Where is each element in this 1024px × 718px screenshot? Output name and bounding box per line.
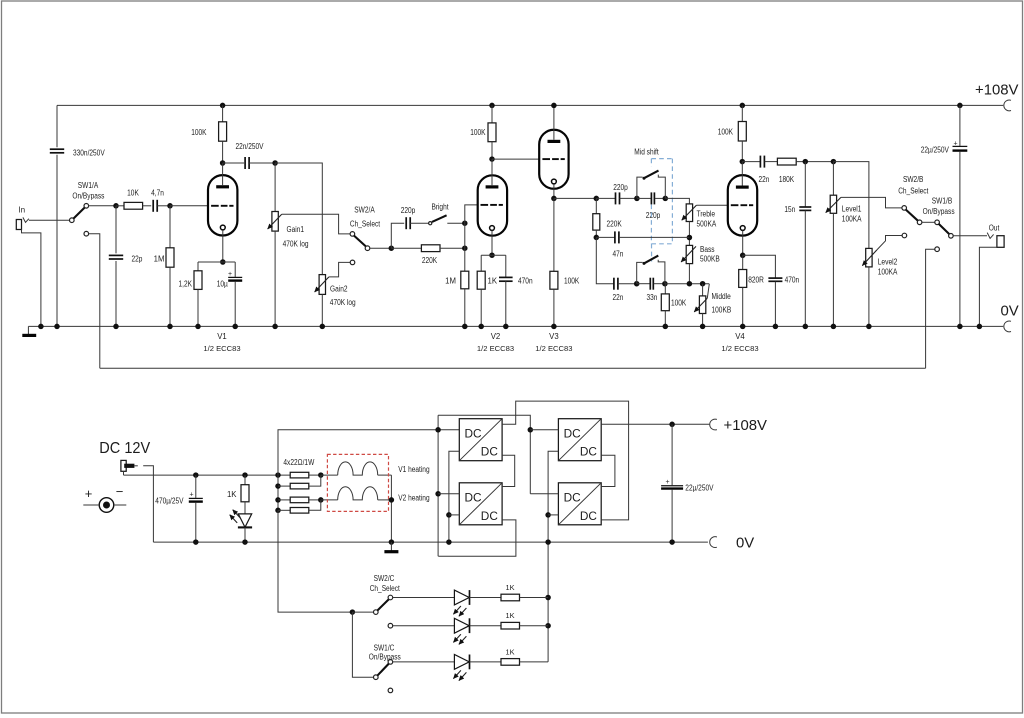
resistor 22ohm R3 — [278, 499, 290, 501]
tube V3 — [539, 130, 568, 189]
svg-text:DC: DC — [564, 427, 582, 441]
wire Gain2 wiper to SW2/A — [329, 262, 350, 277]
input jack J1 — [16, 220, 21, 230]
wire Bright to grid node — [447, 222, 465, 224]
wire bus2 to U3 — [530, 429, 558, 431]
svg-text:4x22Ω/1W: 4x22Ω/1W — [283, 458, 314, 467]
svg-text:1K: 1K — [505, 583, 514, 592]
resistor 100K (V3 cathode) — [553, 198, 555, 271]
switch SW1/B throw2 — [935, 247, 940, 252]
DC-DC converter U4 — [558, 483, 601, 525]
switch SW1/B lever — [939, 224, 950, 235]
potentiometer Middle — [702, 284, 704, 296]
svg-text:On/Bypass: On/Bypass — [72, 191, 104, 200]
wire bus to switches — [278, 510, 352, 612]
svg-text:+: + — [190, 491, 194, 498]
node V2 plate — [489, 156, 495, 162]
svg-text:+: + — [85, 486, 93, 501]
svg-text:1M: 1M — [445, 277, 456, 286]
resistor bus — [277, 475, 279, 510]
wire U1 out+ to L1 — [502, 401, 628, 520]
Level1 wiper — [826, 197, 841, 212]
switch SW2/B throw1 — [902, 206, 907, 211]
wire U2 out- return — [438, 520, 516, 556]
svg-text:1K: 1K — [505, 611, 514, 620]
svg-text:Out: Out — [989, 223, 1000, 232]
svg-text:500KB: 500KB — [700, 255, 720, 264]
wire node to V1 grid — [170, 205, 208, 207]
svg-text:Bass: Bass — [700, 245, 715, 254]
DC-DC converter U1 — [459, 419, 502, 461]
wire U2 in- stub — [449, 514, 459, 516]
V3 grid dash — [542, 158, 550, 160]
wire U1 out- to U2 out+ — [502, 455, 515, 486]
svg-text:100K: 100K — [718, 128, 734, 137]
resistor 22ohm R2 — [278, 485, 290, 487]
switch SW1/A throw1 — [84, 204, 89, 209]
V3 cathode — [552, 179, 557, 184]
wire tone B down — [596, 237, 614, 283]
resistor 22ohm R1 — [290, 472, 309, 478]
svg-text:1/2 ECC83: 1/2 ECC83 — [535, 344, 572, 353]
wire bus2 to U4 — [530, 493, 558, 495]
svg-text:1/2 ECC83: 1/2 ECC83 — [477, 344, 514, 353]
resistor 22ohm R4 — [278, 509, 290, 511]
switch SW2/C lever — [377, 599, 389, 610]
Bass wiper — [681, 246, 696, 262]
+12V rail — [124, 474, 291, 476]
svg-text:DC: DC — [465, 491, 483, 505]
wire SW2/C common stub — [352, 611, 373, 613]
svg-text:Gain2: Gain2 — [330, 285, 348, 294]
0V terminal arc — [1004, 321, 1011, 332]
wire to Treble — [665, 198, 689, 204]
svg-text:Ch_Select: Ch_Select — [898, 187, 929, 196]
svg-text:100KA: 100KA — [878, 268, 898, 277]
wire L2 bus link — [438, 415, 530, 494]
svg-text:4,7n: 4,7n — [151, 188, 164, 197]
LED row 2 — [393, 625, 455, 627]
+108V output wire — [601, 423, 709, 425]
svg-text:V3: V3 — [549, 332, 559, 341]
svg-text:10K: 10K — [127, 188, 139, 197]
DC-DC converter U2 — [459, 483, 502, 525]
Middle wiper — [707, 284, 709, 298]
svg-text:22p: 22p — [132, 255, 143, 264]
node V1 grid input — [113, 203, 119, 209]
Level2 wiper — [862, 250, 877, 266]
node grid V1 — [167, 203, 173, 209]
capacitor 22u/250V (psu) — [671, 424, 673, 485]
svg-text:SW2/C: SW2/C — [374, 574, 395, 583]
resistor 1.2K — [197, 262, 199, 271]
node tone A — [594, 196, 600, 202]
svg-text:22n: 22n — [759, 175, 770, 184]
node Treble/Bass — [687, 235, 693, 241]
switch SW2/A throw1 — [350, 232, 355, 237]
svg-text:Bright: Bright — [431, 203, 449, 212]
node 15n top — [803, 159, 809, 165]
svg-text:DC: DC — [564, 491, 582, 505]
svg-text:On/Bypass: On/Bypass — [369, 653, 401, 662]
svg-text:Gain1: Gain1 — [287, 225, 305, 234]
resistor 220K (tone) — [595, 198, 597, 213]
capacitor 470n (V2 cathode) — [505, 255, 507, 277]
svg-text:Middle: Middle — [712, 292, 731, 301]
junction 330n/0V — [54, 324, 60, 330]
resistor 1K (V2 cathode) — [480, 255, 482, 271]
mid shift switch upper — [637, 177, 643, 198]
wire U4 in- stub — [548, 514, 558, 516]
switch SW2/B throw2 — [902, 233, 907, 238]
capacitor 15n — [804, 162, 806, 207]
wire V3 cathode to tone stack — [554, 197, 596, 199]
bypass wire (bottom) — [100, 367, 926, 369]
switch SW2/C throw2 — [388, 623, 393, 628]
svg-text:33n: 33n — [647, 293, 658, 302]
svg-text:On/Bypass: On/Bypass — [923, 207, 955, 216]
potentiometer Level2 — [866, 248, 872, 267]
svg-text:22n: 22n — [613, 293, 624, 302]
wire to SW1/C — [352, 612, 373, 677]
resistor 100K (V4 plate) — [740, 103, 746, 109]
wire top to Gain2 — [275, 163, 322, 275]
capacitor 4.7n — [152, 200, 154, 212]
wire V2 plate to V3 grid — [492, 158, 540, 160]
node Middle top — [700, 281, 706, 287]
V1 cathode — [220, 225, 225, 230]
svg-text:100K: 100K — [470, 128, 486, 137]
V4 grid dash — [731, 204, 739, 206]
capacitor 33n — [637, 283, 650, 285]
wire lower tone — [665, 283, 709, 285]
wire Gain1 wiper to SW2/A — [282, 214, 350, 234]
svg-text:Mid shift: Mid shift — [634, 147, 659, 156]
svg-text:+108V: +108V — [975, 83, 1019, 99]
switch SW2/A throw2 — [350, 260, 355, 265]
capacitor 22n (tone) — [613, 278, 615, 290]
svg-text:0V: 0V — [736, 536, 754, 552]
svg-text:SW2/B: SW2/B — [903, 175, 923, 184]
wire riser to DC-DC — [278, 430, 459, 475]
svg-text:100KA: 100KA — [842, 215, 862, 224]
resistor 1M (V2 grid) — [461, 271, 469, 289]
+108V rail (top) — [57, 104, 1003, 106]
wire SW2/B to SW1/B — [922, 221, 935, 223]
svg-text:180K: 180K — [779, 175, 795, 184]
V4 cathode — [740, 226, 745, 231]
wire plug sleeve — [123, 471, 125, 475]
capacitor 22n (output) — [742, 161, 760, 163]
node V3 cathode — [551, 196, 557, 202]
node mid switch right — [663, 196, 669, 202]
switch SW2/B lever — [906, 210, 918, 221]
resistor 1K (LED) — [242, 472, 248, 478]
ground (heater) — [390, 542, 392, 551]
node mid2 left — [634, 281, 640, 287]
capacitor 470u/25V — [193, 472, 199, 478]
bus1 vertical — [437, 415, 439, 556]
svg-text:V2: V2 — [491, 332, 501, 341]
svg-text:Ch_Select: Ch_Select — [370, 584, 401, 593]
potentiometer Gain1 — [274, 163, 276, 212]
switch SW1/A throw2 — [84, 231, 89, 236]
V2 plate bar — [486, 185, 499, 188]
wire plug pin — [134, 465, 137, 467]
node V1 cathode — [220, 259, 226, 265]
tube V4 — [728, 175, 757, 236]
resistor 100K (V2 plate) — [489, 103, 495, 109]
capacitor 220p (tone 1) — [596, 197, 615, 199]
capacitor 22p — [115, 206, 117, 254]
wire jack sleeve to 0V — [22, 230, 41, 327]
PSU 0V rail — [153, 541, 708, 543]
wire V2 cathode RC — [481, 254, 506, 256]
svg-text:470n: 470n — [518, 277, 533, 286]
polarity symbol — [83, 504, 98, 506]
svg-text:DC 12V: DC 12V — [99, 440, 151, 457]
wire V2 grid — [465, 205, 478, 271]
svg-text:1M: 1M — [154, 255, 165, 264]
heater V2 — [321, 499, 338, 501]
switch SW2/B common — [917, 220, 922, 225]
svg-text:SW2/A: SW2/A — [354, 206, 375, 215]
node SW2/C — [350, 609, 356, 615]
wire bus1 to U2 — [438, 493, 459, 495]
wire U1 in- chain — [449, 451, 459, 542]
node V2 grid a — [462, 220, 468, 226]
LED D1 (power) — [238, 514, 251, 527]
capacitor 470n (V4 cathode) — [743, 255, 776, 277]
node +12V/riser — [275, 472, 281, 478]
V2 cathode — [490, 226, 495, 231]
wire U3 in- chain — [548, 451, 558, 662]
node Bass bottom — [687, 281, 693, 287]
svg-text:470K log: 470K log — [330, 298, 356, 307]
node V4 cathode — [740, 253, 746, 258]
LED bypass row — [393, 661, 455, 663]
DC plug — [121, 460, 126, 471]
LED D1 arrows — [233, 510, 241, 518]
capacitor 22u/250V (top) — [957, 103, 963, 109]
svg-text:+108V: +108V — [724, 418, 768, 434]
capacitor 330n/250V — [56, 105, 58, 147]
switch Bright lever — [432, 215, 447, 222]
svg-text:22µ/250V: 22µ/250V — [685, 484, 714, 493]
tube V1 — [208, 175, 237, 235]
node tone B — [594, 235, 600, 241]
switch Bright pivot — [429, 222, 432, 225]
switch SW1/A lever — [73, 207, 84, 218]
heater dashed box — [327, 454, 388, 511]
+108V terminal arc — [1004, 100, 1011, 111]
wire Level2 wiper to SW2/B — [877, 236, 902, 250]
svg-text:15n: 15n — [784, 205, 795, 214]
svg-text:820R: 820R — [748, 276, 764, 285]
svg-text:−: − — [116, 484, 124, 499]
capacitor 220p (bright) — [391, 223, 404, 248]
wire jack2 sleeve to 0V — [979, 247, 997, 326]
switch SW1/C lever — [377, 664, 389, 676]
svg-text:V1 heating: V1 heating — [398, 465, 429, 474]
wire Treble to Bass — [688, 222, 690, 246]
mid shift dashed box — [651, 158, 672, 160]
bypass wire right riser — [926, 249, 935, 368]
0V rail (top) — [28, 325, 1003, 327]
svg-text:SW1/C: SW1/C — [374, 644, 395, 653]
svg-text:1,2K: 1,2K — [179, 280, 193, 289]
heater V1 — [321, 474, 338, 476]
svg-text:DC: DC — [481, 509, 499, 523]
wire jack tip to SW1/A — [29, 219, 70, 221]
svg-text:+: + — [228, 271, 232, 278]
svg-text:V4: V4 — [735, 332, 745, 341]
V2 grid dash — [481, 204, 489, 206]
svg-text:+: + — [665, 479, 669, 486]
svg-text:SW1/A: SW1/A — [78, 181, 99, 190]
potentiometer Treble — [686, 204, 692, 222]
capacitor 10u (V1 cathode) — [234, 262, 236, 277]
svg-text:22µ/250V: 22µ/250V — [921, 145, 950, 154]
node mid2 right — [662, 281, 668, 287]
Treble wiper — [682, 205, 697, 220]
capacitor 220p (tone 2) — [637, 197, 651, 199]
svg-text:V2 heating: V2 heating — [398, 493, 429, 502]
svg-text:SW1/B: SW1/B — [932, 196, 952, 205]
ground (input) — [27, 326, 29, 335]
svg-text:V1: V1 — [217, 332, 227, 341]
resistor 820R — [742, 255, 744, 269]
svg-text:0V: 0V — [1001, 304, 1019, 320]
resistor 1M (V1 grid) — [169, 206, 171, 248]
LED channel row — [393, 597, 455, 599]
svg-text:10µ: 10µ — [217, 280, 229, 289]
Gain1 wiper — [268, 214, 282, 229]
switch SW2/A lever — [354, 236, 366, 247]
switch SW2/A common — [365, 246, 370, 251]
node V1 plate — [220, 160, 226, 166]
svg-text:220K: 220K — [422, 256, 438, 265]
svg-text:Level2: Level2 — [878, 258, 898, 267]
resistor 220K (series) — [391, 247, 421, 249]
svg-text:1K: 1K — [488, 277, 498, 286]
svg-text:330n/250V: 330n/250V — [73, 149, 105, 158]
svg-text:470K log: 470K log — [283, 240, 309, 249]
resistor 100K (tone) — [664, 284, 666, 294]
svg-text:Ch_Select: Ch_Select — [350, 220, 381, 229]
svg-text:100K: 100K — [671, 299, 687, 308]
0V terminal arc (psu) — [710, 537, 717, 548]
svg-text:100K: 100K — [564, 277, 580, 286]
tube V2 — [478, 175, 507, 235]
wire cathode RC — [198, 261, 235, 263]
+108V terminal arc (psu) — [710, 419, 717, 430]
svg-text:1/2 ECC83: 1/2 ECC83 — [203, 344, 240, 353]
node Gain1 top — [272, 160, 278, 166]
svg-text:1/2 ECC83: 1/2 ECC83 — [721, 344, 758, 353]
wire to Level2 — [833, 162, 869, 249]
wire U3 out- to U4 out+ — [601, 455, 615, 486]
svg-text:Treble: Treble — [697, 210, 716, 219]
svg-text:1K: 1K — [227, 490, 237, 499]
svg-text:DC: DC — [580, 445, 598, 459]
potentiometer Gain2 — [319, 275, 325, 295]
potentiometer Bass — [686, 245, 692, 263]
capacitor 22n/250V — [223, 162, 245, 164]
wire Bass to lower node — [688, 264, 690, 284]
switch SW2/C common — [374, 610, 379, 615]
switch SW1/C throw2 — [388, 688, 393, 693]
wire SW1/A throw1 to node — [89, 205, 117, 207]
switch SW1/B throw1 — [949, 234, 954, 239]
svg-text:220K: 220K — [607, 219, 623, 228]
switch SW1/B common — [935, 220, 940, 225]
node Level1 top — [831, 159, 837, 165]
svg-text:+: + — [953, 140, 957, 147]
DC-DC converter U3 — [558, 419, 601, 461]
resistor 10K — [116, 205, 124, 207]
svg-text:DC: DC — [465, 427, 483, 441]
wire Level1 wiper to SW2/B — [841, 197, 902, 208]
svg-text:220p: 220p — [646, 211, 661, 220]
svg-text:500KA: 500KA — [697, 220, 717, 229]
wire SW2/A to node — [369, 247, 391, 249]
node mid switch left — [634, 196, 640, 202]
node V2 cathode — [489, 252, 495, 258]
switch SW1/C throw1 — [388, 660, 393, 665]
switch SW1/C common — [374, 675, 379, 680]
node V2 grid b — [462, 245, 468, 251]
svg-text:220p: 220p — [613, 183, 628, 192]
wire SW1/B to Out — [953, 235, 987, 237]
wire SW1/A throw2 to bypass line — [89, 234, 100, 369]
V4 plate bar — [736, 186, 749, 189]
Gain2 wiper — [315, 277, 329, 292]
mid shift switch lower — [637, 262, 643, 283]
wire Treble wiper to V4 grid — [696, 204, 727, 206]
potentiometer Level1 — [832, 162, 834, 196]
resistor 180K — [777, 158, 796, 165]
heater return — [390, 475, 392, 542]
node V4 plate — [740, 159, 746, 165]
V1 grid dash — [211, 205, 219, 207]
V1 plate bar — [216, 185, 229, 188]
svg-text:1K: 1K — [505, 647, 514, 656]
svg-text:100KB: 100KB — [712, 306, 732, 315]
node Bright bottom — [389, 245, 395, 251]
V3 plate bar — [548, 140, 561, 143]
svg-text:220p: 220p — [401, 206, 416, 215]
svg-text:In: In — [19, 205, 26, 214]
svg-text:47n: 47n — [613, 250, 624, 259]
resistor 100K (V1 plate) — [220, 103, 226, 109]
svg-text:DC: DC — [580, 509, 598, 523]
switch SW2/C throw1 — [388, 595, 393, 600]
svg-text:470µ/25V: 470µ/25V — [155, 497, 184, 506]
junction 0V/sleeve — [38, 324, 44, 330]
svg-text:22n/250V: 22n/250V — [236, 142, 265, 151]
svg-text:470n: 470n — [785, 276, 800, 285]
svg-text:100K: 100K — [191, 128, 207, 137]
switch SW1/A common — [70, 218, 75, 223]
capacitor 47n — [596, 236, 615, 238]
svg-text:Level1: Level1 — [842, 204, 862, 213]
svg-text:DC: DC — [481, 445, 499, 459]
output jack J2 — [987, 233, 993, 239]
